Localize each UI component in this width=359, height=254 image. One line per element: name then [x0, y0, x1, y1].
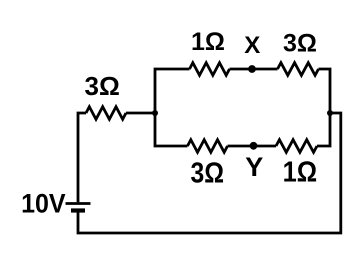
resistor R 3ohm (bottom branch left) [188, 140, 228, 153]
resistor R 3ohm (top branch right) [278, 63, 319, 76]
svg-text:3Ω: 3Ω [191, 157, 225, 189]
node junction (left node of parallel section) [152, 110, 158, 116]
wire: from left resistor to left node [126, 112, 155, 115]
svg-text:10V: 10V [21, 188, 66, 218]
resistor R 1ohm (top branch left) [190, 63, 230, 76]
wire: stub from right node + outer right vertical + bottom return + rise to battery negative plate [78, 113, 341, 233]
svg-text:1Ω: 1Ω [191, 28, 225, 56]
node junction (right node of parallel section) [327, 110, 333, 116]
resistor R 3ohm (left, in series with battery) [86, 107, 126, 120]
node X junction dot [248, 65, 256, 73]
node Y junction dot [250, 142, 258, 150]
svg-text:3Ω: 3Ω [283, 30, 317, 58]
wire: bottom branch through node Y [228, 145, 277, 148]
battery B1 negative plate (short, thick) [71, 208, 85, 212]
svg-text:3Ω: 3Ω [85, 71, 120, 101]
wire: top branch through node X [230, 68, 278, 71]
wire: main horizontal lead + left vertical down to battery [78, 113, 86, 202]
wire: top branch lead-in + left vertical of parallel section + bottom branch lead-in [155, 69, 190, 146]
wire: top branch lead-out + right vertical of parallel section + bottom branch lead-out [317, 69, 330, 146]
svg-text:X: X [244, 32, 260, 59]
svg-text:Y: Y [245, 152, 263, 182]
svg-text:1Ω: 1Ω [283, 157, 318, 189]
battery B1 positive plate (long) [66, 202, 91, 205]
resistor R 1ohm (bottom branch right) [276, 140, 317, 153]
